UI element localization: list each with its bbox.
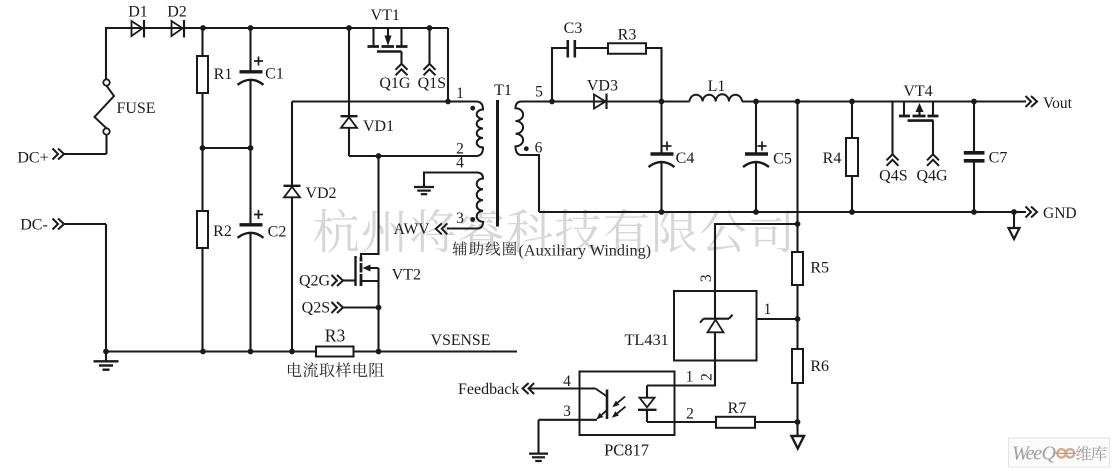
diode VD1: [341, 28, 358, 156]
svg-text:VD3: VD3: [587, 77, 618, 94]
svg-text:Q2G: Q2G: [299, 273, 331, 290]
transistor VT4 MOSFET: [899, 102, 939, 121]
node phase dot auxiliary: [470, 217, 475, 222]
capacitor C4: [649, 102, 675, 213]
node DC+ input: [17, 149, 106, 167]
resistor R1: [197, 28, 208, 148]
wire pin4 to ground: [424, 173, 477, 187]
svg-text:3: 3: [698, 274, 715, 282]
resistor R7: [716, 417, 798, 428]
resistor R2: [197, 148, 208, 352]
svg-text:Q2S: Q2S: [302, 300, 330, 317]
diode VD2: [284, 102, 301, 352]
wire DC- down to ground rail: [105, 224, 107, 352]
node junction top wire / VD1: [346, 25, 352, 31]
optocoupler PC817 box: [580, 372, 675, 436]
node Q1S terminal: [424, 28, 436, 75]
svg-text:Vout: Vout: [1043, 95, 1073, 112]
wire pin2 rail: [349, 155, 476, 157]
diode D2: [172, 20, 185, 38]
wire middle R1C1-R2C2: [203, 147, 251, 149]
node junction rail / C5 top: [753, 99, 759, 105]
svg-text:D2: D2: [167, 4, 187, 21]
wire ground rail right / VSENSE: [354, 350, 518, 352]
svg-text:DC+: DC+: [17, 150, 48, 167]
resistor R6: [792, 349, 803, 436]
wire main top rail: [106, 27, 448, 29]
node junction GND rail: [1011, 209, 1017, 215]
node DC- input: [20, 217, 106, 234]
node junction rail / C5 bottom: [753, 209, 759, 215]
transformer T1 core: [496, 100, 499, 227]
svg-text:C5: C5: [773, 151, 792, 168]
node junction pin2 / VT2 drain: [376, 153, 382, 159]
svg-text:C1: C1: [265, 66, 284, 83]
phototransistor inside PC817: [528, 389, 607, 420]
node Q1G terminal: [396, 52, 408, 76]
transistor VT1 MOSFET: [368, 28, 408, 52]
capacitor C1: [238, 28, 264, 148]
svg-text:5: 5: [535, 83, 543, 100]
capacitor C7: [964, 102, 985, 213]
svg-text:(Auxiliary Winding): (Auxiliary Winding): [519, 241, 652, 259]
svg-text:R7: R7: [728, 400, 747, 417]
resistor R3 snubber: [608, 43, 662, 101]
node junction top wire / Q1S: [427, 25, 433, 31]
watermark WeeQoo box: [1009, 438, 1110, 467]
node junction pin1 wire: [445, 99, 451, 105]
svg-text:6: 6: [535, 139, 543, 156]
svg-text:R3: R3: [325, 326, 346, 346]
wire VT1 to T1 pin1: [447, 28, 449, 102]
svg-text:VT1: VT1: [371, 7, 400, 24]
node junction rail / C2: [248, 349, 254, 355]
transformer T1 auxiliary winding pins 4-3: [477, 173, 483, 229]
node junction top wire / C1: [248, 25, 254, 31]
wire TL431 pin1 to divider: [757, 318, 798, 320]
node GND output: [1026, 205, 1077, 222]
svg-text:VT4: VT4: [903, 83, 932, 100]
svg-text:Q1G: Q1G: [379, 75, 411, 92]
node Vout output: [1026, 95, 1073, 112]
node phase dot secondary: [524, 146, 529, 151]
diode D1: [132, 20, 145, 38]
node junction R7 / column: [795, 419, 801, 425]
node Q2S terminal: [332, 302, 379, 313]
svg-text:2: 2: [698, 373, 715, 381]
node junction rail / C4 top: [659, 99, 665, 105]
svg-text:FUSE: FUSE: [116, 100, 155, 117]
wire DC+ corner vertical: [105, 27, 107, 80]
wire secondary output rail left: [521, 100, 690, 102]
ground auxiliary: [414, 187, 434, 194]
light arrows PC817: [612, 397, 626, 418]
node junction rail / R4 bottom: [849, 209, 855, 215]
node junction snubber left: [549, 99, 555, 105]
capacitor C3: [552, 40, 608, 102]
op-amp U1 TL431 box: [674, 291, 757, 361]
svg-text:PC817: PC817: [604, 441, 649, 460]
wire R5 column from Vout rail: [796, 102, 798, 251]
node junction rail / C7 bottom: [971, 209, 977, 215]
svg-text:C3: C3: [564, 20, 583, 37]
wire pin6 to secondary gnd rail: [521, 155, 539, 212]
resistor R5: [792, 250, 803, 349]
svg-text:Feedback: Feedback: [458, 381, 519, 398]
resistor R4: [846, 102, 858, 213]
svg-text:C7: C7: [989, 150, 1008, 167]
svg-text:R1: R1: [214, 66, 233, 83]
svg-text:R4: R4: [823, 150, 842, 167]
resistor R3 current sense: [316, 347, 354, 357]
fuse FUSE: [95, 79, 115, 154]
node junction rail / C7 top: [971, 99, 977, 105]
wire TL431 pin2 down: [647, 361, 715, 386]
node junction mid / C2: [248, 145, 254, 151]
wire PC817 pin2 to R7: [647, 421, 716, 423]
node junction pin3 wire / column: [795, 221, 801, 227]
svg-text:C4: C4: [676, 150, 695, 167]
node AWV terminal: [436, 223, 477, 234]
svg-text:1: 1: [686, 368, 694, 385]
zener inside TL431: [700, 291, 733, 361]
node junction rail / DC-: [103, 349, 109, 355]
svg-text:1: 1: [456, 85, 464, 102]
svg-text:VD2: VD2: [305, 185, 336, 202]
svg-text:GND: GND: [1043, 205, 1077, 222]
node junction rail / C4 bottom: [659, 209, 665, 215]
node Q4G terminal: [927, 121, 939, 166]
svg-text:1: 1: [764, 301, 772, 318]
svg-text:Q1S: Q1S: [418, 75, 446, 92]
wire pin1 rail: [292, 100, 476, 102]
svg-text:Q4S: Q4S: [879, 168, 907, 185]
svg-text:R2: R2: [213, 223, 232, 240]
node junction Q2S / source: [376, 305, 382, 311]
svg-text:3: 3: [456, 210, 464, 227]
transformer T1 secondary winding pins 5-6: [516, 102, 524, 156]
node Q2G terminal: [332, 275, 356, 286]
svg-text:3: 3: [563, 403, 571, 420]
wire secondary output rail right: [742, 100, 1026, 102]
svg-text:D1: D1: [128, 4, 148, 21]
node junction top wire / R1: [200, 25, 206, 31]
svg-text:C2: C2: [268, 224, 287, 241]
svg-text:AWV: AWV: [394, 221, 431, 238]
svg-text:VD1: VD1: [363, 118, 394, 135]
svg-text:R3: R3: [618, 27, 637, 44]
ground signal at GND: [1009, 212, 1020, 239]
wire secondary gnd rail: [539, 211, 1026, 213]
wire TL431 pin3 to divider top: [715, 224, 798, 291]
svg-text:T1: T1: [494, 82, 512, 99]
svg-text:VSENSE: VSENSE: [431, 332, 491, 349]
transistor VT2 MOSFET: [356, 156, 379, 352]
inductor L1: [690, 94, 743, 101]
wire PC817 pin3 to ground: [537, 420, 539, 453]
svg-text:R6: R6: [810, 358, 829, 375]
node junction rail / R4 top: [849, 99, 855, 105]
svg-text:R5: R5: [810, 260, 829, 277]
node Feedback terminal: [458, 381, 534, 398]
node junction R5/R6 TL431 ref: [795, 316, 801, 322]
node phase dot primary: [470, 106, 475, 111]
ground PC817 emitter: [529, 454, 548, 461]
watermark text 杭州将睿科技有限公司: [314, 209, 791, 253]
svg-text:L1: L1: [708, 78, 726, 95]
transformer T1 primary winding pins 1-2: [476, 102, 483, 157]
svg-text:Q4G: Q4G: [916, 168, 948, 185]
svg-text:DC-: DC-: [20, 217, 48, 234]
svg-text:4: 4: [563, 373, 571, 390]
diode VD3: [594, 94, 607, 110]
value label 电流取样电阻: [288, 362, 384, 377]
svg-text:Wee: Wee: [1012, 443, 1042, 465]
LED inside PC817: [638, 386, 657, 423]
svg-text:VT2: VT2: [392, 266, 421, 283]
node junction rail / VT2 source: [376, 349, 382, 355]
svg-text:2: 2: [686, 405, 694, 422]
ground signal below R6: [792, 436, 805, 449]
svg-text:4: 4: [456, 155, 464, 172]
capacitor C5: [743, 102, 769, 213]
ground main earth: [94, 352, 119, 370]
node junction rail / R2: [200, 349, 206, 355]
svg-text:TL431: TL431: [624, 330, 668, 349]
node junction mid / R2: [200, 145, 206, 151]
value label 辅助线圈(Auxiliary Winding): [453, 241, 652, 259]
node Q4S terminal: [887, 102, 899, 166]
node junction rail / VD2: [289, 349, 295, 355]
capacitor C2: [238, 148, 264, 352]
wire ground rail left: [106, 350, 316, 352]
node junction R5 column / Vout rail: [795, 99, 801, 105]
